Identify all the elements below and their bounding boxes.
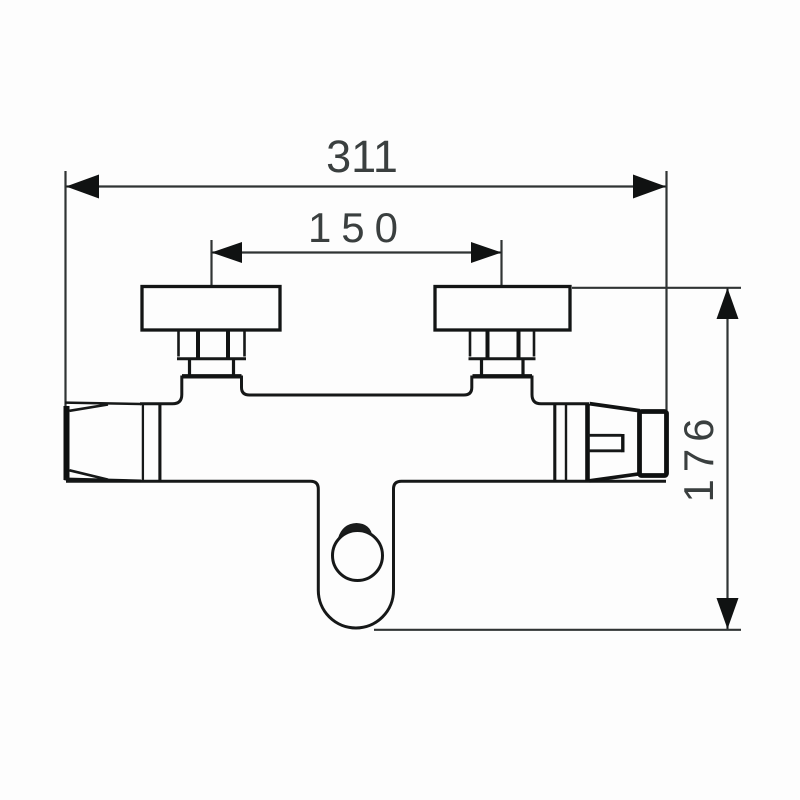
right fitting end cap: [640, 412, 667, 476]
right collar thick line: [553, 404, 556, 482]
arrowhead 176 top: [717, 288, 739, 319]
left fitting taper bottom edge: [70, 470, 109, 479]
left collar thick line: [158, 404, 161, 482]
extension line left of 311: [64, 171, 66, 406]
extension line bottom of 176: [374, 629, 741, 631]
escutcheon right: [435, 287, 570, 331]
dimension line 176: [726, 288, 728, 629]
arrowhead 311 left: [66, 175, 99, 199]
svg-text:176: 176: [675, 411, 722, 502]
right fitting taper top edge: [590, 404, 641, 411]
right fitting slot top: [588, 434, 622, 437]
left fitting taper top edge: [70, 405, 109, 411]
left collar thin line: [142, 404, 144, 482]
right fitting slot bottom: [588, 449, 622, 452]
arrowhead 176 bottom: [717, 598, 739, 629]
dimension line 311: [66, 185, 666, 187]
body upper contour: [140, 377, 589, 404]
extension line right of 311: [665, 171, 667, 410]
arrowhead 150 right: [471, 242, 502, 263]
union nut right: step line: [469, 357, 536, 360]
right collar thin line: [565, 404, 567, 482]
right fitting inner vertical: [585, 404, 590, 481]
extension line right of 150: [500, 240, 502, 286]
arrowhead 311 right: [633, 175, 666, 199]
union nut left: step line: [177, 357, 246, 360]
svg-text:311: 311: [326, 131, 398, 182]
left fitting bottom outer edge: [65, 479, 142, 481]
right fitting slot right edge: [621, 434, 624, 452]
left fitting end cap bar: [64, 406, 70, 480]
escutcheon left: [142, 287, 280, 331]
body bottom contour with spout: [66, 481, 666, 628]
union nut left: neck lines: [188, 359, 191, 375]
left fitting top outer edge: [65, 403, 141, 404]
spout outlet top crescent: [338, 523, 373, 538]
extension line top of 176: [572, 287, 741, 289]
arrowhead 150 left: [212, 242, 243, 263]
union nut left: base flange: [182, 374, 242, 377]
union nut right: base flange: [473, 374, 533, 377]
union nut right: neck lines: [480, 359, 483, 375]
union nut left: hex facet lines: [177, 330, 180, 357]
svg-text:150: 150: [308, 204, 408, 251]
union nut right: hex facet lines: [469, 330, 472, 357]
spout outlet circle: [333, 531, 383, 581]
dimension line 150: [212, 251, 502, 253]
right fitting taper bottom edge: [590, 474, 641, 481]
extension line left of 150: [210, 240, 212, 286]
